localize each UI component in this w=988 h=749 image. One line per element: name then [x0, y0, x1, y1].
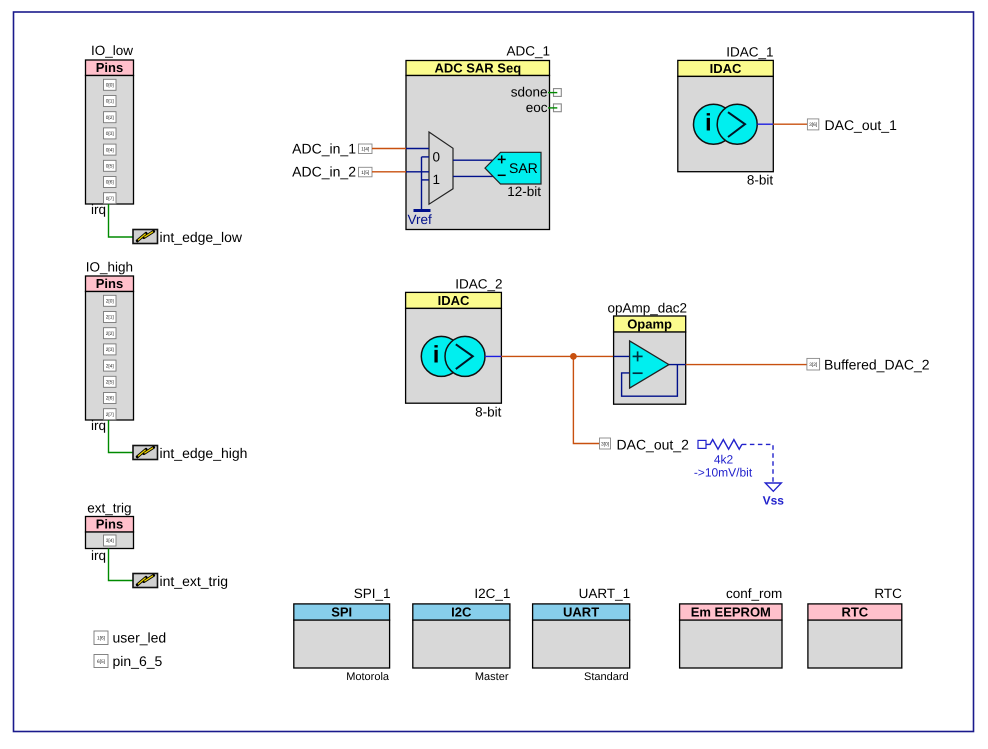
svg-text:2[7]: 2[7]: [106, 412, 114, 418]
SPI block SPI_1: [294, 586, 391, 683]
terminal Buffered_DAC_2: [807, 357, 930, 373]
pins component IO_high: [86, 260, 134, 434]
svg-text:1[5]: 1[5]: [361, 170, 369, 176]
svg-text:IDAC: IDAC: [710, 61, 742, 76]
svg-text:8-bit: 8-bit: [747, 173, 774, 188]
svg-text:0[3]: 0[3]: [106, 131, 114, 137]
wire IDAC_1 output: [757, 123, 773, 125]
wire irq ext_trig to int_ext_trig: [109, 549, 134, 581]
svg-text:Standard: Standard: [584, 671, 629, 683]
svg-text:DAC_out_2: DAC_out_2: [617, 437, 690, 453]
svg-text:Vref: Vref: [408, 212, 433, 227]
svg-text:1: 1: [433, 172, 441, 187]
junction node: [570, 353, 577, 360]
terminal DAC_out_2: [600, 437, 690, 453]
svg-text:12-bit: 12-bit: [507, 184, 541, 199]
svg-text:0[1]: 0[1]: [106, 99, 114, 105]
svg-text:ADC_in_1: ADC_in_1: [292, 140, 356, 156]
pin terminal pin_6_5: [94, 653, 163, 669]
UART block UART_1: [533, 586, 631, 683]
svg-text:conf_rom: conf_rom: [726, 586, 782, 601]
wire opamp + input: [614, 355, 630, 357]
opamp feedback wire: [622, 365, 678, 397]
svg-text:3[4]: 3[4]: [106, 538, 114, 544]
wire irq IO_low to int_edge_low: [109, 204, 134, 237]
wire Vref to mux: [422, 157, 430, 211]
opamp block opAmp_dac2: [607, 301, 687, 405]
wire ADC_in_2 to ADC_1: [372, 171, 406, 173]
svg-text:ADC SAR Seq: ADC SAR Seq: [434, 61, 521, 76]
svg-text:3[6]: 3[6]: [809, 122, 817, 128]
svg-text:IDAC_2: IDAC_2: [455, 277, 502, 292]
svg-text:Pins: Pins: [96, 276, 123, 291]
wire mux to SAR -: [453, 175, 493, 177]
svg-text:2[0]: 2[0]: [106, 299, 114, 305]
svg-text:IO_low: IO_low: [91, 43, 133, 58]
svg-text:irq: irq: [91, 202, 106, 217]
power symbol Vss: [763, 483, 785, 508]
svg-text:int_edge_low: int_edge_low: [160, 229, 243, 245]
interrupt component int_edge_low: [133, 229, 243, 245]
svg-text:0[6]: 0[6]: [106, 180, 114, 186]
svg-text:2[5]: 2[5]: [106, 380, 114, 386]
svg-text:Buffered_DAC_2: Buffered_DAC_2: [824, 357, 930, 373]
svg-text:RTC: RTC: [874, 586, 902, 601]
svg-text:6[5]: 6[5]: [97, 659, 105, 665]
svg-text:int_ext_trig: int_ext_trig: [160, 573, 228, 589]
svg-text:IDAC: IDAC: [438, 293, 470, 308]
svg-text:i: i: [433, 342, 440, 369]
IDAC block IDAC_1: [678, 45, 774, 188]
interrupt component int_ext_trig: [133, 573, 228, 589]
output eoc: [526, 100, 562, 115]
svg-text:Master: Master: [475, 671, 509, 683]
wire irq IO_high to int_edge_high: [109, 420, 134, 453]
svg-text:0[4]: 0[4]: [106, 147, 114, 153]
svg-text:0: 0: [433, 149, 441, 164]
wire opamp output to Buffered_DAC_2: [686, 364, 807, 366]
svg-text:2[6]: 2[6]: [106, 396, 114, 402]
wire mux to SAR +: [453, 159, 493, 161]
svg-text:2[4]: 2[4]: [106, 363, 114, 369]
svg-text:3[2]: 3[2]: [809, 362, 817, 368]
svg-text:SPI_1: SPI_1: [354, 586, 391, 601]
svg-text:2[3]: 2[3]: [106, 347, 114, 353]
pins component IO_low: [86, 43, 134, 217]
svg-text:I2C: I2C: [451, 605, 472, 620]
svg-text:RTC: RTC: [841, 605, 868, 620]
svg-text:IO_high: IO_high: [86, 260, 133, 275]
terminal ADC_in_2: [292, 164, 372, 180]
svg-text:I2C_1: I2C_1: [474, 586, 510, 601]
svg-text:int_edge_high: int_edge_high: [160, 445, 248, 461]
wire opamp output: [669, 364, 686, 366]
svg-text:Vss: Vss: [763, 494, 785, 508]
svg-text:ADC_in_2: ADC_in_2: [292, 164, 356, 180]
ADC block ADC_1: [406, 44, 550, 230]
svg-text:Opamp: Opamp: [627, 317, 672, 332]
IDAC block IDAC_2: [406, 277, 503, 420]
svg-text:user_led: user_led: [113, 629, 167, 645]
svg-text:0[0]: 0[0]: [106, 83, 114, 89]
svg-text:0[7]: 0[7]: [106, 196, 114, 202]
analog mux inside ADC_1: [429, 132, 453, 204]
wire IDAC_2 output: [485, 355, 501, 357]
resistor R 4k2: [694, 440, 753, 480]
interrupt component int_edge_high: [133, 445, 247, 461]
svg-text:opAmp_dac2: opAmp_dac2: [607, 301, 687, 316]
I2C block I2C_1: [413, 586, 511, 683]
SAR comparator symbol: [485, 152, 541, 199]
dashed wire resistor to Vss: [742, 444, 773, 482]
svg-text:eoc: eoc: [526, 100, 548, 115]
svg-text:0[5]: 0[5]: [106, 164, 114, 170]
svg-text:Pins: Pins: [96, 517, 123, 532]
svg-text:sdone: sdone: [511, 85, 548, 100]
pin terminal user_led: [94, 629, 166, 645]
terminal DAC_out_1: [807, 117, 897, 133]
svg-text:ADC_1: ADC_1: [506, 44, 550, 59]
svg-text:8-bit: 8-bit: [475, 405, 502, 420]
svg-text:3[0]: 3[0]: [601, 441, 609, 447]
Vref reference symbol: [408, 211, 433, 228]
svg-text:ext_trig: ext_trig: [87, 501, 131, 516]
svg-text:Em EEPROM: Em EEPROM: [691, 605, 771, 620]
svg-text:SPI: SPI: [331, 605, 352, 620]
RTC block RTC: [808, 586, 902, 668]
EEPROM block conf_rom: [680, 586, 783, 668]
wire junction down to DAC_out_2: [573, 356, 599, 443]
op-amp triangle: [630, 341, 669, 388]
svg-text:irq: irq: [91, 418, 106, 433]
svg-text:1[6]: 1[6]: [97, 636, 105, 642]
svg-text:irq: irq: [91, 548, 106, 563]
annotation terminal square: [698, 440, 706, 448]
svg-text:->10mV/bit: ->10mV/bit: [694, 466, 753, 480]
svg-text:2[2]: 2[2]: [106, 331, 114, 337]
terminal ADC_in_1: [292, 140, 372, 156]
svg-text:UART_1: UART_1: [579, 586, 631, 601]
svg-text:0[2]: 0[2]: [106, 115, 114, 121]
svg-text:2[1]: 2[1]: [106, 315, 114, 321]
wire ADC_in_1 to ADC_1: [372, 148, 406, 150]
svg-text:IDAC_1: IDAC_1: [726, 45, 773, 60]
svg-text:DAC_out_1: DAC_out_1: [825, 117, 898, 133]
svg-text:4k2: 4k2: [714, 453, 734, 467]
pins component ext_trig: [86, 501, 134, 564]
svg-text:UART: UART: [563, 605, 599, 620]
svg-text:SAR: SAR: [509, 160, 538, 176]
svg-text:1[4]: 1[4]: [361, 147, 369, 153]
svg-text:Pins: Pins: [96, 60, 123, 75]
output sdone: [511, 85, 562, 100]
svg-text:Motorola: Motorola: [346, 671, 390, 683]
svg-text:pin_6_5: pin_6_5: [113, 653, 163, 669]
svg-text:i: i: [705, 110, 712, 137]
